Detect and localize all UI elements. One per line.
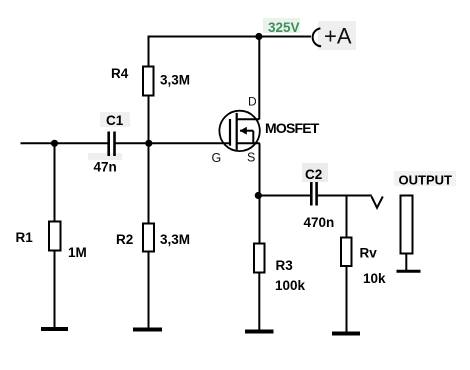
svg-text:R1: R1: [16, 230, 34, 245]
svg-text:R2: R2: [116, 232, 133, 247]
svg-text:3,3M: 3,3M: [160, 73, 190, 88]
svg-text:R4: R4: [111, 66, 129, 81]
svg-text:G: G: [212, 151, 222, 165]
svg-text:3,3M: 3,3M: [160, 232, 190, 247]
svg-text:OUTPUT: OUTPUT: [399, 173, 453, 188]
svg-text:10k: 10k: [363, 271, 386, 286]
svg-text:C2: C2: [305, 167, 322, 182]
svg-text:100k: 100k: [275, 278, 306, 293]
svg-text:470n: 470n: [304, 215, 335, 230]
svg-text:1M: 1M: [68, 245, 87, 260]
svg-text:R3: R3: [276, 258, 294, 273]
svg-text:S: S: [247, 151, 255, 165]
svg-text:Rv: Rv: [360, 246, 378, 261]
svg-text:325V: 325V: [268, 20, 300, 35]
svg-text:+A: +A: [324, 24, 352, 49]
svg-text:D: D: [248, 95, 257, 109]
svg-text:MOSFET: MOSFET: [265, 120, 320, 136]
svg-text:C1: C1: [106, 113, 124, 128]
svg-text:47n: 47n: [94, 160, 117, 175]
